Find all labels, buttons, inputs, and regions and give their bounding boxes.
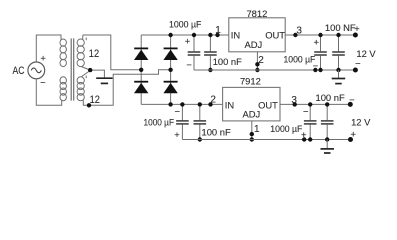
capacitor C1 1000 uF — [188, 35, 201, 70]
wire AC bottom to primary — [36, 79, 61, 105]
svg-text:+: + — [351, 129, 357, 140]
svg-text:+: + — [40, 53, 46, 64]
wire -12 output rail — [280, 103, 350, 105]
svg-text:12: 12 — [90, 94, 100, 106]
transformer T1 primary winding upper — [60, 39, 66, 67]
capacitor C5 1000 uF — [176, 104, 189, 139]
extra dot left of C3 bottom — [313, 68, 317, 72]
+ terminal bottom — [348, 137, 353, 142]
junction C3 bottom — [318, 68, 322, 72]
wire center tap — [82, 67, 105, 78]
ground (bottom section) — [321, 140, 335, 154]
junction D2 top — [168, 33, 172, 37]
U2 pin 3 dot — [293, 102, 297, 106]
svg-text:1: 1 — [254, 124, 260, 135]
svg-text:100 nF: 100 nF — [202, 127, 231, 138]
svg-text:ADJ: ADJ — [244, 39, 262, 50]
secondary bottom terminal dot — [87, 103, 91, 107]
svg-text:1000 µF: 1000 µF — [284, 54, 316, 65]
svg-text:3: 3 — [296, 26, 302, 37]
junction C8 bottom — [325, 137, 329, 141]
svg-text:+: + — [313, 36, 319, 47]
junction C4 top — [336, 33, 340, 37]
center tap junction — [88, 68, 92, 72]
junction C6 top — [198, 102, 202, 106]
node left column mid — [139, 68, 143, 72]
+12V terminal — [353, 33, 358, 38]
svg-text:3: 3 — [291, 95, 297, 106]
svg-text:1: 1 — [215, 25, 221, 36]
junction C6 bottom — [198, 137, 202, 141]
svg-text:100 NF: 100 NF — [325, 22, 356, 33]
svg-text:7912: 7912 — [240, 75, 261, 86]
svg-text:ADJ: ADJ — [243, 108, 261, 119]
svg-text:OUT: OUT — [258, 100, 278, 111]
capacitor C6 100 nF — [194, 104, 207, 139]
svg-text:−: − — [40, 77, 46, 88]
node right column mid — [168, 68, 172, 72]
junction C5 top — [180, 102, 184, 106]
svg-text:7812: 7812 — [246, 8, 267, 19]
ground (top section) — [332, 70, 346, 84]
junction C3 top — [318, 33, 322, 37]
junction C8 top — [325, 102, 329, 106]
wire positive rail — [141, 34, 229, 36]
svg-text:1000 µF: 1000 µF — [270, 123, 302, 134]
svg-text:−: − — [186, 59, 192, 70]
U1 ADJ pin wire — [256, 52, 258, 70]
svg-text:100 nF: 100 nF — [213, 56, 242, 67]
transformer T1 primary winding lower — [60, 77, 66, 101]
U1 pin 3 dot — [293, 33, 297, 37]
svg-text:+: + — [354, 23, 360, 34]
wire right diode column — [170, 35, 172, 104]
junction C2 top — [208, 33, 212, 37]
wire secondary top to bridge — [83, 35, 141, 70]
0V terminal top — [353, 68, 358, 73]
junction C7 bottom — [308, 137, 312, 141]
AC source V1 — [28, 62, 45, 79]
transformer T1 core — [71, 38, 74, 100]
svg-text:+: + — [174, 129, 180, 140]
diode D1 — [134, 48, 148, 60]
diode D2 — [163, 48, 177, 60]
svg-text:100 nF: 100 nF — [316, 92, 345, 103]
svg-text:−: − — [303, 106, 309, 117]
svg-text:IN: IN — [225, 100, 234, 111]
secondary phasing tick upper — [85, 38, 87, 41]
wire secondary bottom to bridge — [89, 70, 171, 106]
junction C4 bottom — [336, 68, 340, 72]
capacitor C3 1000 uF — [314, 35, 327, 70]
U2 pin 2 dot — [208, 102, 212, 106]
capacitor C7 1000 uF — [304, 104, 317, 139]
U1 pin 1 dot — [215, 33, 219, 37]
wire AC top to primary — [36, 35, 61, 62]
wire left diode column — [140, 35, 142, 104]
svg-text:12 V: 12 V — [351, 117, 371, 128]
svg-text:2: 2 — [210, 95, 216, 106]
ground (center tap) — [96, 78, 112, 83]
-12V terminal — [348, 102, 353, 107]
junction D4 bottom — [168, 102, 172, 106]
junction C1 top — [192, 33, 196, 37]
wire +12 output rail — [285, 34, 355, 36]
U2 ADJ junction — [250, 137, 254, 141]
junction C7 top — [308, 102, 312, 106]
extra dot left of C7 bottom — [302, 137, 306, 141]
svg-text:12: 12 — [89, 48, 99, 60]
wire negative rail — [141, 103, 222, 105]
regulator U1 7812 — [229, 18, 285, 52]
transformer T1 secondary winding lower — [77, 77, 89, 106]
capacitor C2 100 nF — [204, 35, 217, 70]
svg-text:−: − — [175, 106, 181, 117]
svg-text:−: − — [355, 58, 361, 69]
diode D3 — [134, 82, 148, 94]
svg-text:1000 µF: 1000 µF — [169, 18, 202, 29]
capacitor C8 100 nF — [321, 104, 334, 139]
secondary phasing tick lower — [85, 76, 87, 79]
svg-text:IN: IN — [231, 30, 240, 41]
svg-text:+: + — [185, 35, 191, 46]
svg-text:OUT: OUT — [265, 30, 285, 41]
svg-text:1000 µF: 1000 µF — [144, 116, 175, 127]
transformer T1 secondary winding upper — [77, 35, 84, 67]
svg-text:−: − — [349, 94, 355, 105]
diode D4 — [163, 82, 177, 94]
svg-text:AC: AC — [13, 65, 25, 77]
U2 ADJ pin wire — [251, 121, 253, 140]
U2 ADJ pin dot — [250, 132, 254, 136]
regulator U2 7912 — [223, 87, 280, 121]
ground rail bottom section — [182, 139, 350, 141]
capacitor C4 100 NF — [332, 35, 345, 70]
ground rail top section — [194, 69, 355, 71]
U1 ADJ junction — [255, 68, 259, 72]
junction C2 bottom — [208, 68, 212, 72]
U1 ADJ pin dot — [255, 62, 259, 66]
